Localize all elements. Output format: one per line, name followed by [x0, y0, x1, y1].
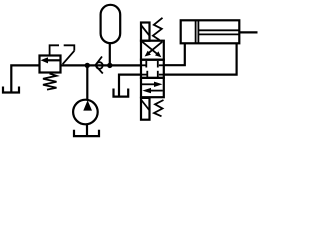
- wire accumulator stem: [109, 42, 111, 65]
- wire main pressure line P: [62, 64, 141, 66]
- wire pump riser: [86, 65, 88, 100]
- cylinder C1 rod (external): [239, 31, 257, 33]
- DV1 top solenoid: [141, 23, 150, 41]
- DV1 blocked port A stub: [158, 61, 164, 68]
- wire pump suction: [86, 124, 88, 136]
- DV1 bottom return spring: [154, 100, 164, 116]
- DV1 parallel arrow left: [142, 88, 163, 93]
- cylinder C1 body: [181, 20, 240, 43]
- tank T3 (pump suction): [74, 130, 99, 136]
- DV1 bottom solenoid: [141, 98, 150, 120]
- directional valve DV1 box 3 (parallel position): [141, 78, 164, 97]
- wire valve B port to cylinder rod end: [164, 44, 237, 75]
- pump P1 circle: [73, 100, 98, 125]
- DV1 blocked port P stub: [141, 61, 146, 68]
- wire valve T port to tank T2: [119, 75, 141, 96]
- directional valve DV1 box 1 (crossed position): [141, 41, 164, 60]
- relief valve V1 spring: [43, 74, 57, 90]
- wire valve A port to cylinder cap end: [164, 44, 185, 66]
- DV1 blocked port B stub: [158, 71, 164, 78]
- cylinder C1 piston: [196, 21, 199, 43]
- tank T2 (valve return): [114, 89, 129, 97]
- accumulator A1: [101, 5, 121, 43]
- wire relief valve outlet to tank T1: [11, 65, 38, 92]
- tank T1 (relief valve drain): [3, 87, 19, 93]
- directional valve DV1 box 2 (closed centre): [141, 60, 164, 78]
- relief valve V1 pilot line (dashed): [50, 45, 75, 64]
- pump P1 triangle: [83, 100, 92, 110]
- check valve CV1 seat: [95, 57, 103, 74]
- directional valve DV1 crossed arrows: [142, 42, 162, 58]
- node junction dot accumulator: [107, 63, 112, 68]
- check valve CV1 ball: [96, 62, 103, 69]
- cylinder C1 rod (internal): [199, 30, 239, 34]
- relief valve V1 arrow: [41, 57, 61, 63]
- DV1 parallel arrow right: [142, 82, 163, 87]
- DV1 top return spring: [153, 18, 163, 40]
- relief valve V1 body: [40, 56, 61, 73]
- DV1 blocked port T stub: [141, 71, 147, 78]
- node junction dot pump/relief: [85, 63, 90, 68]
